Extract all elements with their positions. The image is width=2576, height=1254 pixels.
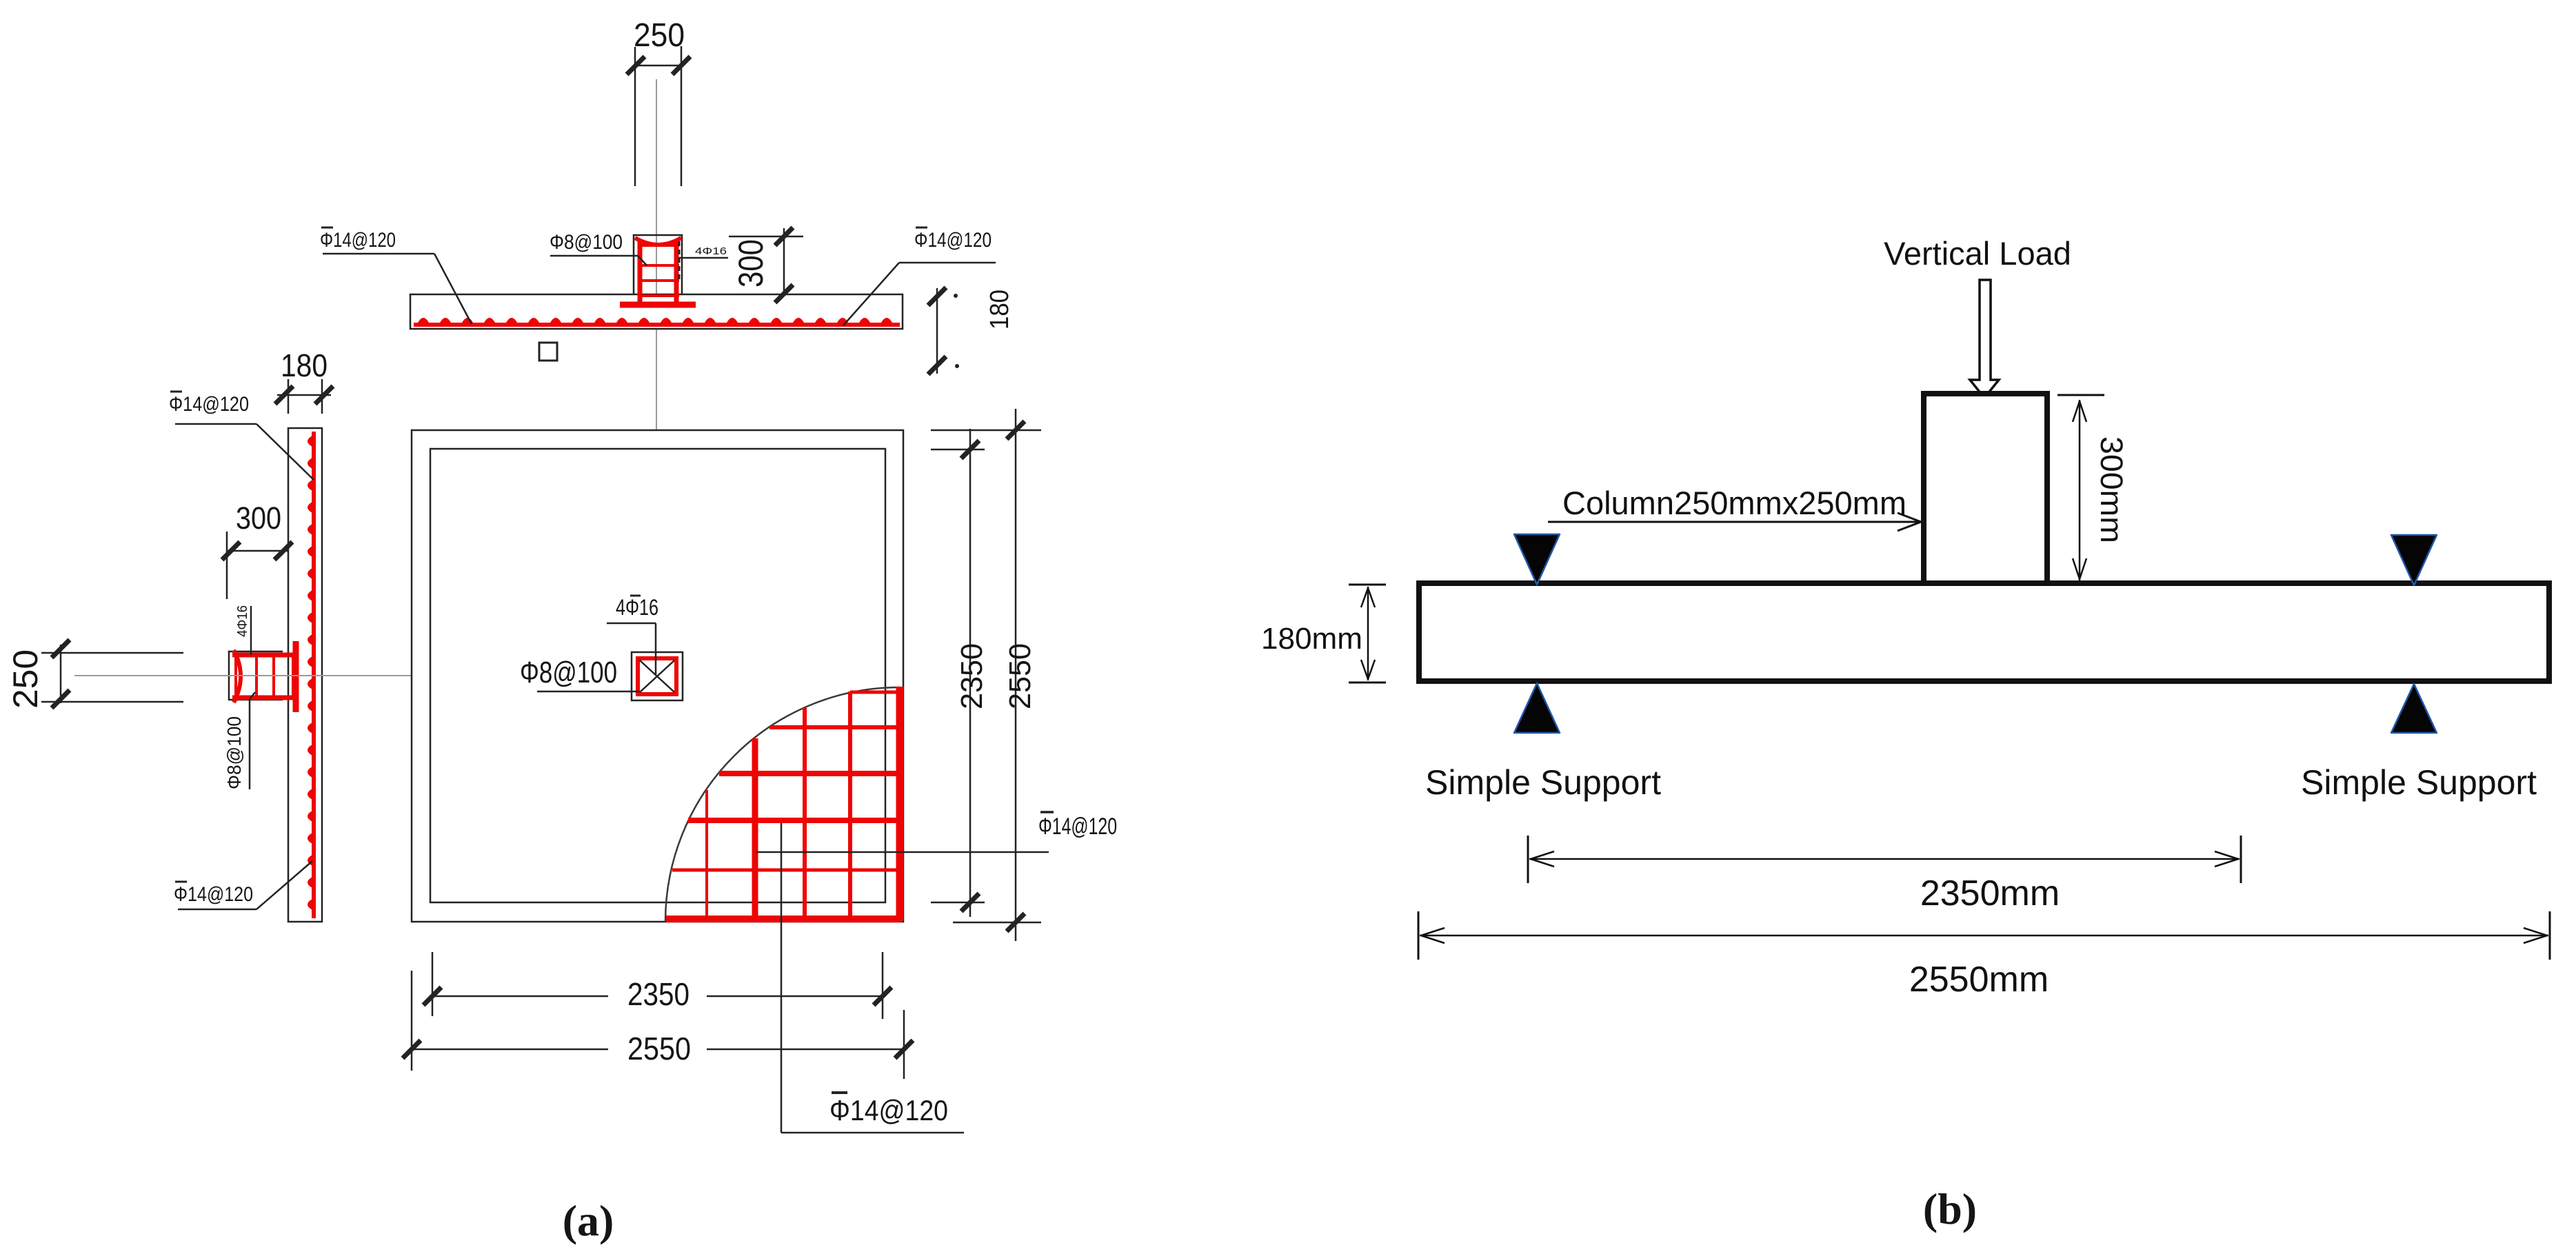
svg-text:250: 250 [634,17,685,54]
svg-text:Simple Support: Simple Support [2301,763,2537,802]
svg-text:300mm: 300mm [2094,436,2129,543]
svg-text:Vertical Load: Vertical Load [1884,235,2071,272]
svg-text:Φ8@100: Φ8@100 [550,231,623,254]
svg-text:4Φ16: 4Φ16 [616,595,658,620]
svg-text:(a): (a) [563,1196,614,1245]
svg-text:2350mm: 2350mm [1920,873,2060,913]
svg-text:Φ14@120: Φ14@120 [174,883,253,906]
svg-text:2350: 2350 [955,643,989,709]
svg-text:2550: 2550 [1003,643,1037,709]
svg-text:Φ14@120: Φ14@120 [320,229,396,252]
svg-text:Column250mmx250mm: Column250mmx250mm [1562,485,1906,521]
svg-text:Simple Support: Simple Support [1425,763,1661,802]
svg-text:4Φ16: 4Φ16 [695,245,727,257]
svg-text:Φ14@120: Φ14@120 [914,229,992,252]
svg-text:180: 180 [985,290,1014,330]
svg-text:(b): (b) [1923,1184,1977,1233]
svg-text:2550: 2550 [627,1031,691,1066]
svg-text:180: 180 [281,347,328,383]
svg-text:4Φ16: 4Φ16 [235,605,250,637]
svg-text:250: 250 [6,649,45,709]
svg-text:300: 300 [236,500,281,536]
svg-text:2550mm: 2550mm [1909,960,2049,1000]
svg-text:300: 300 [732,239,770,287]
svg-text:180mm: 180mm [1261,622,1362,656]
svg-text:Φ14@120: Φ14@120 [1038,813,1117,840]
svg-text:Φ8@100: Φ8@100 [520,656,617,689]
svg-text:Φ8@100: Φ8@100 [223,716,245,789]
svg-text:Φ14@120: Φ14@120 [169,393,249,416]
svg-text:Φ14@120: Φ14@120 [829,1094,948,1126]
svg-text:2350: 2350 [627,976,690,1012]
